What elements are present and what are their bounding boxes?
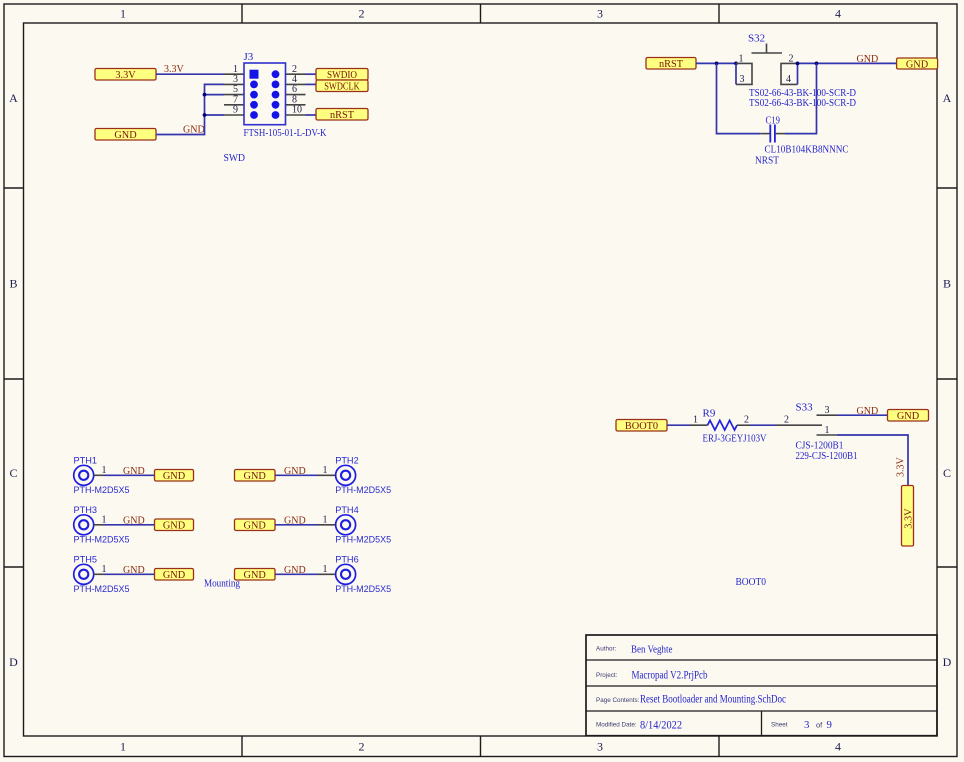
svg-text:3: 3 [825,405,830,416]
C19 pin left [760,133,769,135]
mounting hole PTH1 [74,456,130,496]
svg-text:A: A [943,91,952,105]
port GND (PTH2) [235,470,276,483]
svg-text:NRST: NRST [755,155,779,167]
svg-text:Author:: Author: [596,646,617,653]
margin column ticks top [242,4,719,23]
svg-text:of: of [816,720,823,729]
svg-text:1: 1 [120,740,126,754]
svg-text:4: 4 [786,74,791,85]
mounting hole PTH3 [74,505,130,545]
svg-text:3: 3 [740,74,745,85]
S32 actuator [752,44,783,54]
svg-text:ERJ-3GEYJ103V: ERJ-3GEYJ103V [703,433,767,444]
svg-text:Modified Date:: Modified Date: [596,722,637,729]
svg-text:GND: GND [123,565,145,576]
svg-text:229-CJS-1200B1: 229-CJS-1200B1 [796,451,858,462]
svg-text:2: 2 [359,7,365,21]
svg-text:3.3V: 3.3V [115,70,136,81]
mounting hole PTH5 [74,555,130,595]
wire cap left branch [717,63,761,133]
svg-text:GND: GND [123,516,145,527]
svg-text:TS02-66-43-BK-100-SCR-D: TS02-66-43-BK-100-SCR-D [749,98,856,109]
svg-text:SWDCLK: SWDCLK [324,82,360,93]
mounting hole PTH4 [335,505,391,545]
svg-text:PTH-M2D5X5: PTH-M2D5X5 [335,485,391,495]
svg-text:Page Contents:: Page Contents: [596,697,640,704]
svg-text:3: 3 [597,7,603,21]
S33 pin 1 [817,434,838,436]
junction pin9 [203,113,207,117]
svg-text:Reset Bootloader and Mounting.: Reset Bootloader and Mounting.SchDoc [640,694,786,706]
svg-text:GND: GND [123,466,145,477]
grid reference labels top [120,7,841,21]
svg-text:4: 4 [835,7,841,21]
svg-text:1: 1 [739,53,744,64]
svg-text:PTH-M2D5X5: PTH-M2D5X5 [74,535,130,545]
svg-text:PTH-M2D5X5: PTH-M2D5X5 [335,535,391,545]
svg-text:A: A [9,91,18,105]
svg-text:4: 4 [835,740,841,754]
port GND (PTH5) [155,569,194,582]
junction cap right branch [815,62,819,66]
svg-text:GND: GND [857,54,879,65]
wire pin9 branch [205,114,225,116]
junction pin5 [203,93,207,97]
R9 pin 2 [737,424,750,426]
switch S32 right contact [781,63,798,84]
svg-text:PTH2: PTH2 [335,456,359,466]
port 3.3V vertical [902,486,915,547]
mounting hole PTH2 [335,456,391,496]
svg-text:PTH3: PTH3 [74,505,98,515]
svg-text:PTH1: PTH1 [74,456,98,466]
svg-text:C: C [9,466,17,480]
svg-text:2: 2 [789,53,794,64]
title block frame [586,635,937,736]
grid reference labels left [9,91,18,669]
junction S32 pin2 [796,62,800,66]
wire S33 pin3 to GND [837,414,888,416]
PTH3 pin 1 [94,515,107,526]
svg-text:R9: R9 [703,408,716,420]
svg-text:GND: GND [163,570,186,581]
port GND (PTH6) [235,569,276,582]
svg-text:1: 1 [102,564,107,575]
svg-text:9: 9 [233,105,238,116]
svg-text:S33: S33 [796,402,814,414]
svg-text:B: B [9,277,17,291]
junction S32 pin1 [734,62,738,66]
svg-text:1: 1 [323,564,328,575]
wire GND bus [156,84,224,134]
svg-text:8/14/2022: 8/14/2022 [640,719,682,731]
capacitor C19 [770,125,775,143]
margin row ticks left [4,188,24,567]
port nRST (SWD) [316,109,368,122]
svg-text:GND: GND [244,570,267,581]
svg-text:FTSH-105-01-L-DV-K: FTSH-105-01-L-DV-K [244,128,327,139]
port GND (PTH1) [155,470,194,483]
svg-text:1: 1 [825,425,830,436]
margin column ticks bottom [242,736,719,757]
resistor R9 [708,420,738,430]
wire 3.3V to J3 pin1 [156,73,224,75]
wire nRST to S32 [696,62,736,64]
svg-text:1: 1 [102,465,107,476]
S33 pin 3 [817,414,838,416]
wire cap right branch [785,63,817,133]
wire S33 pin1 to 3.3V [837,435,908,486]
svg-text:PTH6: PTH6 [335,555,359,565]
grid reference labels bottom [120,740,841,754]
port GND (PTH4) [235,519,276,532]
mounting hole PTH6 [335,555,391,595]
J3 right pin dots [272,70,280,119]
svg-text:Macropad V2.PrjPcb: Macropad V2.PrjPcb [632,670,708,682]
svg-text:PTH-M2D5X5: PTH-M2D5X5 [74,584,130,594]
port GND (PTH3) [155,519,194,532]
svg-text:CJS-1200B1: CJS-1200B1 [796,440,844,451]
svg-text:BOOT0: BOOT0 [625,421,658,432]
svg-text:GND: GND [244,521,267,532]
C19 pin right [776,133,785,135]
svg-text:C: C [943,466,951,480]
svg-text:3: 3 [804,719,809,731]
svg-text:BOOT0: BOOT0 [736,576,767,588]
S33 pin 2 [776,424,823,426]
svg-text:1: 1 [323,465,328,476]
port nRST [646,58,696,71]
svg-text:1: 1 [323,515,328,526]
junction cap left branch [715,62,719,66]
svg-text:PTH-M2D5X5: PTH-M2D5X5 [335,584,391,594]
svg-text:J3: J3 [244,51,254,63]
svg-text:1: 1 [102,515,107,526]
svg-text:GND: GND [244,471,267,482]
wire PTH1 to GND [104,474,155,476]
PTH1 pin 1 [94,465,107,476]
PTH2 pin 1 [318,465,336,476]
J3 pin1 square [250,70,259,79]
port SWDIO [316,69,368,82]
svg-text:2: 2 [744,415,749,426]
wire GND to PTH6 [275,573,318,575]
pin numbers left (1,3,5,7,9) [233,64,238,116]
svg-text:GND: GND [114,130,137,141]
J3 left pin dots [250,81,258,119]
svg-text:nRST: nRST [659,59,684,70]
wire GND to PTH2 [275,474,318,476]
svg-text:GND: GND [906,59,929,70]
PTH5 pin 1 [94,564,107,575]
svg-text:2: 2 [359,740,365,754]
svg-text:Ben Veghte: Ben Veghte [631,643,673,655]
wire BOOT0 to R9 [667,424,690,426]
svg-text:D: D [9,655,18,669]
port BOOT0 [616,420,667,433]
svg-text:B: B [943,277,951,291]
wire pin5 branch [205,94,225,96]
port SWDCLK [316,80,368,93]
PTH6 pin 1 [318,564,336,575]
wire pin10 to nRST [306,114,317,116]
wire GND to PTH4 [275,524,318,526]
title block row lines [586,660,937,736]
svg-text:C19: C19 [766,114,781,126]
svg-text:D: D [943,655,952,669]
svg-text:nRST: nRST [330,110,355,121]
svg-text:GND: GND [163,471,186,482]
svg-text:Project:: Project: [596,672,618,679]
wire PTH5 to GND [104,573,155,575]
svg-text:PTH5: PTH5 [74,555,98,565]
svg-text:GND: GND [857,406,879,417]
svg-text:2: 2 [784,415,789,426]
svg-text:3.3V: 3.3V [896,457,907,478]
margin row ticks right [937,188,957,567]
S32 pin numbers [739,53,794,85]
wire R9 to S33 [750,424,776,426]
wire S32 pin2 to GND [798,62,898,64]
port GND (SWD) [95,129,156,142]
pin numbers right (2,4,6,8,10) [292,64,302,116]
connector J3 pins left [224,74,244,115]
svg-text:PTH4: PTH4 [335,505,359,515]
port GND (boot0) [888,410,929,423]
R9 pin 1 [690,424,708,426]
port GND (nrst) [897,58,938,70]
svg-text:10: 10 [292,105,302,116]
svg-text:S32: S32 [748,33,765,45]
port 3.3V [95,69,156,82]
svg-text:3: 3 [597,740,603,754]
PTH4 pin 1 [318,515,336,526]
svg-text:PTH-M2D5X5: PTH-M2D5X5 [74,485,130,495]
svg-text:GND: GND [163,521,186,532]
wire pin4 to SWDCLK [306,83,317,85]
svg-text:3.3V: 3.3V [903,508,914,529]
connector J3 body [244,63,286,125]
svg-text:GND: GND [897,411,920,422]
grid reference labels right [943,91,952,669]
svg-text:1: 1 [120,7,126,21]
wire pin2 to SWDIO [306,73,317,75]
svg-text:9: 9 [827,719,832,731]
wire PTH3 to GND [104,524,155,526]
switch S32 left contact [736,63,752,84]
svg-text:1: 1 [693,415,698,426]
connector J3 pins right [286,74,306,115]
svg-text:Sheet: Sheet [771,722,788,729]
svg-text:SWD: SWD [224,152,246,164]
